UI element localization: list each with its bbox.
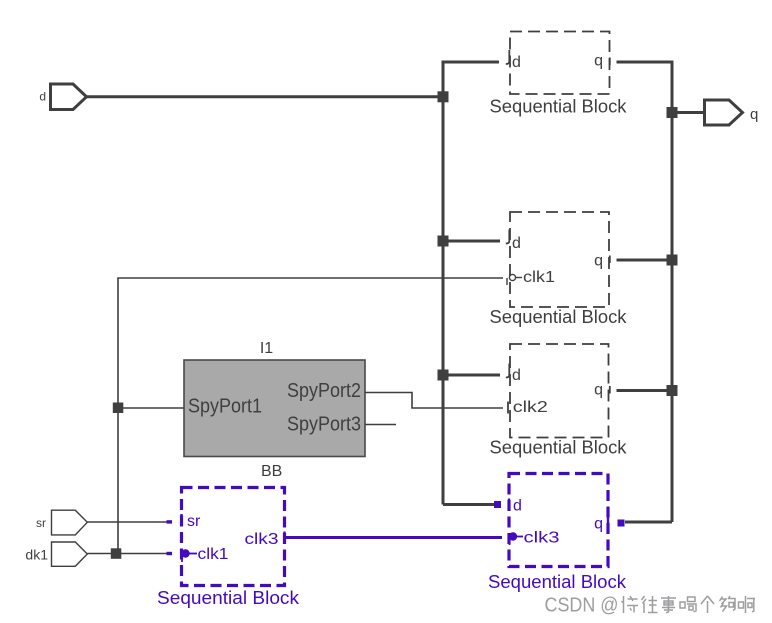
svg-text:Sequential Block: Sequential Block [488, 572, 627, 592]
wire sr to U4 [87, 521, 168, 523]
wire dk1 to U4 clk1 [87, 553, 168, 555]
svg-text:SpyPort3: SpyPort3 [287, 414, 361, 436]
wire SpyPort3 stub [365, 424, 396, 426]
wire right bus bottom to U5 q [625, 521, 672, 524]
junction dk1 / riser [111, 548, 122, 559]
wire left bus to U2 d [443, 240, 500, 243]
svg-text:Sequential Block: Sequential Block [490, 438, 628, 458]
svg-text:clk1: clk1 [198, 546, 229, 563]
pin q of U2 [609, 256, 611, 264]
wire to output port q [672, 111, 704, 114]
wire left bus bottom to U5 d [443, 503, 497, 506]
sequential block U4 (purple, bottom left) [157, 488, 300, 609]
pin clk1 of U2 (clock bubble) [509, 274, 515, 280]
sequential block U2 [490, 212, 628, 327]
svg-text:q: q [594, 382, 603, 399]
sequential block U1 (top) [490, 32, 628, 117]
svg-text:Sequential Block: Sequential Block [490, 307, 628, 327]
svg-text:I1: I1 [260, 340, 273, 357]
pin q of U5 [618, 520, 625, 527]
svg-text:BB: BB [261, 463, 282, 480]
wire left bus vertical [442, 61, 445, 505]
output port q [705, 100, 743, 125]
wire left bus top horizontal to U1 d [442, 61, 500, 64]
svg-text:q: q [594, 516, 603, 533]
svg-text:d: d [512, 235, 521, 252]
svg-text:q: q [594, 53, 603, 70]
wire U1 q to right bus [617, 61, 674, 64]
wire SpyPort1 [118, 407, 184, 409]
svg-text:Sequential Block: Sequential Block [490, 97, 628, 117]
junction SpyPort1 / clk1 riser [113, 403, 124, 414]
sequential block U5 (purple, bottom right) [488, 474, 627, 593]
pin d of U1 [506, 50, 510, 64]
junction on d input net [438, 91, 449, 102]
svg-text:q: q [594, 253, 603, 270]
pin d of U2 [506, 230, 510, 244]
svg-text:Sequential Block: Sequential Block [157, 588, 300, 608]
wire d input to left bus [87, 95, 445, 98]
input port sr [52, 510, 88, 535]
svg-text:clk2: clk2 [513, 399, 548, 416]
svg-text:d: d [513, 498, 522, 515]
svg-text:dk1: dk1 [25, 547, 48, 563]
spy block I1 (gray box) [184, 340, 365, 480]
pin sr of U4 [167, 520, 173, 523]
svg-text:clk1: clk1 [523, 269, 555, 286]
pin q of U1 [609, 58, 611, 66]
wire SpyPort2 to clk2 [365, 393, 503, 409]
junction q output net [667, 107, 678, 118]
wire right bus vertical [671, 62, 674, 522]
input port d [51, 84, 87, 110]
pin clk3 of U5 (clock bubble) [509, 532, 517, 540]
pin clk1 of U4 (clock bubble) [167, 552, 173, 555]
input port dk1 [52, 542, 88, 566]
wire clk3 (purple net) [286, 536, 502, 539]
svg-text:sr: sr [187, 513, 201, 530]
pin d of U5 [494, 501, 501, 508]
svg-text:clk3: clk3 [524, 530, 560, 547]
watermark hanzi (hand drawn) [622, 596, 756, 613]
svg-text:d: d [39, 90, 46, 104]
pin d of U3 [506, 364, 510, 378]
svg-text:CSDN @: CSDN @ [545, 595, 619, 617]
pin clk2 of U3 [507, 402, 509, 414]
junction U2 q [667, 255, 678, 266]
pin q of U3 [609, 386, 611, 394]
sequential block U3 [490, 344, 628, 458]
svg-text:sr: sr [36, 516, 46, 530]
svg-text:clk3: clk3 [245, 531, 279, 548]
wire clk1 net riser [118, 278, 503, 554]
svg-text:SpyPort2: SpyPort2 [287, 380, 361, 402]
pin clk3 of U4 [283, 532, 285, 544]
wire U3 q to right bus [617, 389, 673, 392]
svg-text:SpyPort1: SpyPort1 [188, 396, 262, 418]
svg-text:d: d [512, 367, 521, 384]
wire U2 q to right bus [617, 259, 673, 262]
junction U3 d [438, 370, 449, 381]
wire left bus to U3 d [443, 374, 500, 377]
svg-text:q: q [750, 106, 758, 123]
junction U2 d [438, 236, 449, 247]
svg-text:d: d [512, 54, 521, 71]
junction U3 q [667, 385, 678, 396]
